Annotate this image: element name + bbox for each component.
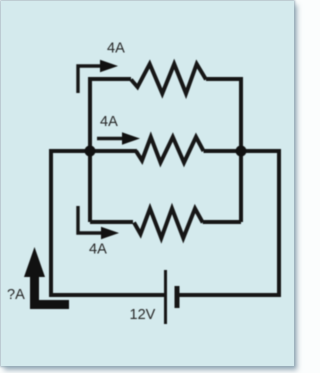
current arrow middle branch xyxy=(97,137,124,140)
node B (right junction) xyxy=(236,146,247,157)
wire top branch left horizontal xyxy=(88,77,131,81)
arrowhead bottom branch xyxy=(101,227,119,239)
wire inner-right vertical (top branch to bottom branch) xyxy=(239,77,243,222)
wire bottom branch left horizontal xyxy=(90,220,133,224)
svg-text:?A: ?A xyxy=(7,287,25,303)
total current arrow ?A (thick) xyxy=(24,247,69,309)
wire outer-left vertical xyxy=(49,149,53,295)
wire inner-left vertical (top branch to bottom branch) xyxy=(88,79,92,222)
wire battery row left xyxy=(49,293,164,297)
svg-text:4A: 4A xyxy=(89,242,107,258)
wire outer-right vertical xyxy=(277,149,281,295)
svg-text:12V: 12V xyxy=(130,307,156,323)
svg-text:4A: 4A xyxy=(100,114,118,130)
wire top branch right horizontal xyxy=(206,77,241,81)
wire middle branch left horizontal xyxy=(51,149,137,153)
battery V1 negative plate xyxy=(175,286,180,308)
node A (left junction) xyxy=(85,146,96,157)
wire bottom branch right horizontal xyxy=(203,220,241,224)
resistor R2 (middle branch) xyxy=(136,137,204,163)
resistor R1 (top branch) xyxy=(131,64,206,94)
battery V1 positive plate xyxy=(164,270,167,324)
current arrow bottom branch xyxy=(78,206,103,233)
wire middle branch right horizontal xyxy=(204,149,280,153)
arrowhead top branch xyxy=(100,60,118,72)
svg-text:4A: 4A xyxy=(107,41,125,57)
resistor R3 (bottom branch) xyxy=(134,209,203,239)
current arrow top branch xyxy=(78,66,102,93)
wire battery row right xyxy=(179,293,281,297)
arrowhead middle branch xyxy=(122,132,140,144)
